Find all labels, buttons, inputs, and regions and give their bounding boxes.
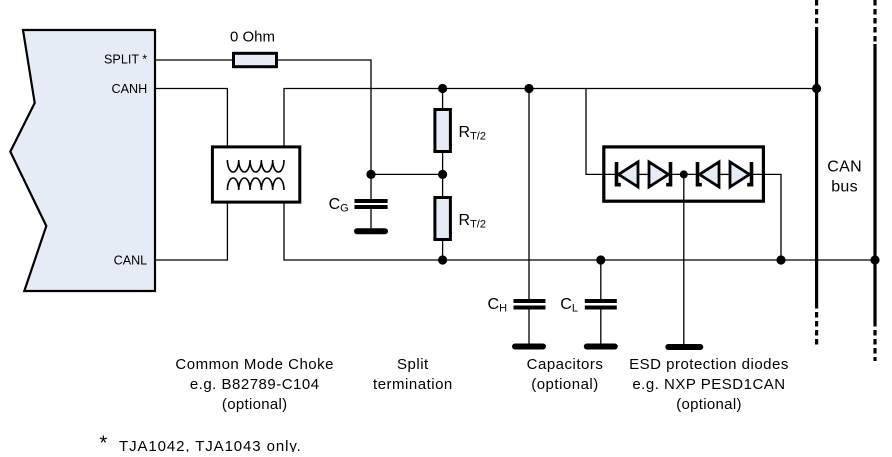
wire split termination vertical CANH to CANL — [442, 89, 444, 109]
diode D2a triangle — [700, 162, 720, 187]
diode D2a cathode bar — [698, 162, 702, 185]
diode D1a cathode bar — [617, 162, 621, 185]
wire ESD left lead — [586, 89, 617, 175]
CAN bus line L solid — [873, 44, 876, 321]
node CANH bus junction — [812, 84, 821, 93]
svg-text:0 Ohm: 0 Ohm — [230, 29, 275, 46]
CAN bus line L (right) dashed top — [873, 0, 876, 44]
wire mid node to CG — [371, 173, 443, 175]
wire ESD internal — [638, 173, 649, 175]
svg-text:SPLIT *: SPLIT * — [104, 53, 147, 67]
transceiver block U1 — [10, 30, 155, 291]
diode D1a triangle — [619, 162, 639, 187]
node CH junction — [524, 84, 533, 93]
ESD protection diodes D1 box — [604, 147, 764, 201]
svg-text:Common Mode Choke: Common Mode Choke — [175, 356, 334, 373]
svg-text:(optional): (optional) — [222, 396, 288, 413]
wire ESD right lead — [752, 174, 782, 260]
node split mid junction — [366, 170, 375, 179]
svg-text:ESD protection diodes: ESD protection diodes — [629, 356, 789, 373]
CG ground bar — [357, 228, 385, 234]
svg-text:e.g. B82789-C104: e.g. B82789-C104 — [190, 376, 320, 393]
svg-text:Capacitors: Capacitors — [527, 356, 604, 373]
svg-text:termination: termination — [373, 376, 453, 393]
CAN bus line H (left) dashed top — [815, 0, 818, 29]
wire between RT/2 resistors — [442, 153, 444, 196]
wire SPLIT pin to R 0ohm — [155, 59, 232, 61]
svg-text:CAN: CAN — [827, 158, 862, 175]
wire choke bottom-right leg to CAN bus L line — [284, 190, 875, 260]
node CL junction — [596, 255, 605, 264]
node RT top junction — [438, 84, 447, 93]
svg-text:TJA1042, TJA1043 only.: TJA1042, TJA1043 only. — [119, 438, 302, 452]
svg-text:bus: bus — [831, 178, 858, 195]
capacitor CG — [370, 174, 372, 199]
ESD ground bar — [668, 344, 700, 350]
svg-text:(optional): (optional) — [676, 396, 742, 413]
capacitor CL — [600, 260, 602, 299]
diode D2b cathode bar — [747, 162, 751, 185]
wire RT/2 bottom to CANL — [442, 241, 444, 260]
choke winding top — [227, 160, 284, 172]
diode D1b cathode bar — [666, 162, 670, 185]
svg-text:CANL: CANL — [114, 254, 148, 268]
resistor RT/2 upper — [435, 110, 451, 152]
CAN bus line H dashed bottom — [815, 303, 818, 345]
CAN bus line H solid — [815, 29, 818, 303]
CL ground bar — [587, 344, 615, 350]
diode D1b triangle — [649, 162, 669, 187]
wire choke right leg to CAN bus H line — [284, 89, 817, 161]
node CANL bus junction — [870, 255, 879, 264]
node RT bottom junction — [438, 255, 447, 264]
resistor RT/2 lower — [435, 198, 451, 240]
svg-text:e.g. NXP PESD1CAN: e.g. NXP PESD1CAN — [632, 376, 785, 393]
wire CANL pin to choke bottom-left leg — [155, 190, 227, 260]
node ESD center junction — [680, 170, 688, 178]
choke winding bottom — [227, 178, 284, 190]
node RT mid junction — [438, 170, 447, 179]
wire CANH pin to choke left leg — [155, 89, 227, 161]
svg-text:*: * — [100, 433, 108, 453]
diode D2b triangle — [730, 162, 750, 187]
resistor 0 Ohm — [234, 53, 277, 66]
wire R 0ohm to split-termination vertical — [278, 60, 371, 174]
svg-text:Split: Split — [397, 356, 429, 373]
capacitor CH — [528, 89, 530, 300]
wire ESD center to ground — [683, 174, 685, 344]
CH ground bar — [515, 344, 543, 350]
common mode choke L1 box — [212, 147, 299, 202]
node ESD right junction — [776, 255, 785, 264]
svg-text:CANH: CANH — [112, 82, 148, 96]
svg-text:(optional): (optional) — [531, 376, 599, 393]
CAN bus line L dashed bottom — [873, 321, 876, 361]
